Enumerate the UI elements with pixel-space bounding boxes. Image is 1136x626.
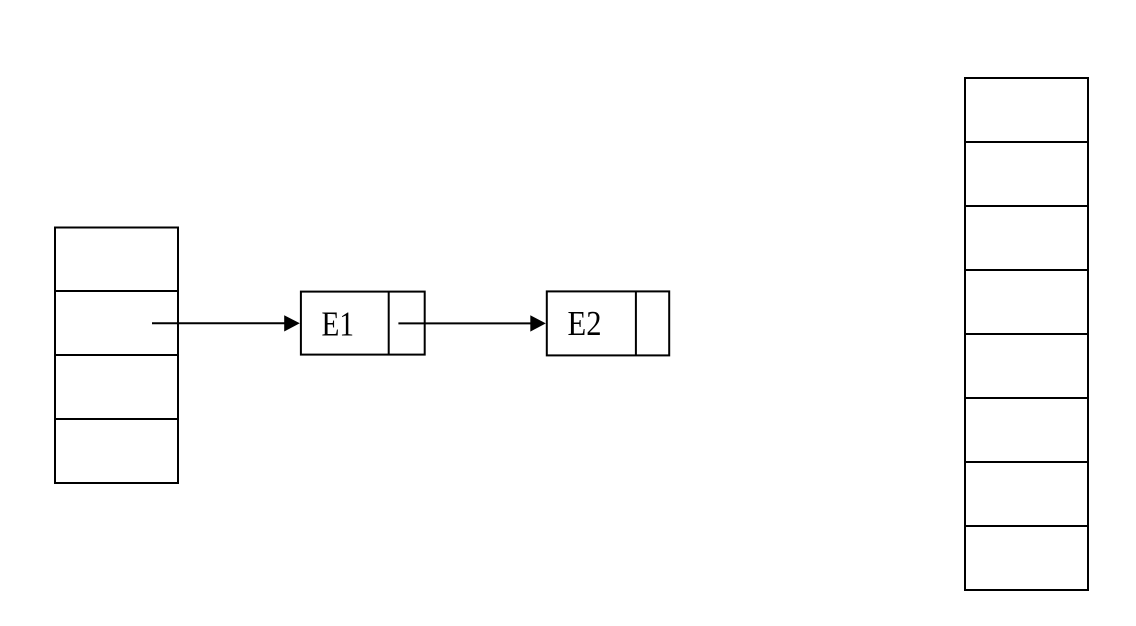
svg-text:E1: E1 xyxy=(322,305,355,344)
node E1 box xyxy=(301,292,425,355)
arrow from node E1 pointer to node E2 xyxy=(398,315,545,331)
node E2 label xyxy=(568,304,602,343)
right array (8 slots) xyxy=(965,78,1088,590)
left array (4 slots) xyxy=(55,228,178,484)
svg-text:E2: E2 xyxy=(568,304,602,343)
arrow from left array slot 2 to node E1 xyxy=(152,315,300,331)
node E1 label xyxy=(322,305,355,344)
node E2 box xyxy=(547,291,669,355)
